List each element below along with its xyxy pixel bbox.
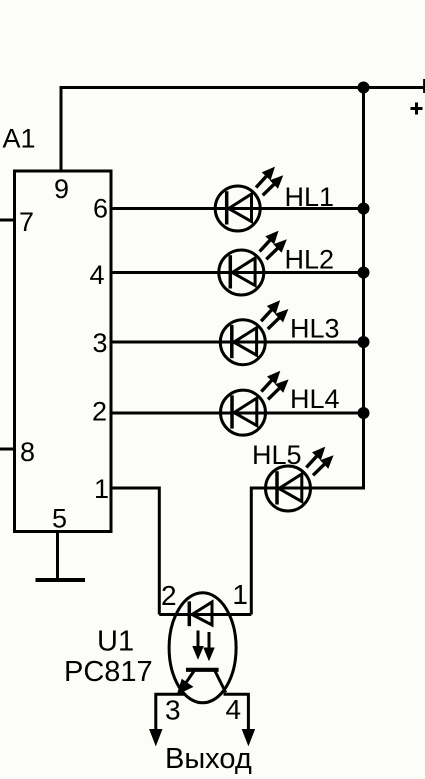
svg-text:2: 2 — [92, 397, 107, 427]
svg-text:A1: A1 — [3, 124, 36, 154]
svg-text:8: 8 — [20, 437, 35, 467]
svg-text:HL3: HL3 — [290, 314, 340, 344]
svg-text:3: 3 — [165, 695, 181, 726]
svg-text:Выход: Выход — [165, 743, 252, 775]
svg-text:HL1: HL1 — [285, 182, 335, 212]
svg-text:3: 3 — [92, 328, 107, 358]
svg-text:5: 5 — [52, 504, 67, 534]
svg-text:6: 6 — [93, 194, 108, 224]
svg-text:7: 7 — [19, 207, 34, 237]
svg-text:4: 4 — [89, 260, 104, 290]
svg-text:HL2: HL2 — [285, 245, 335, 275]
svg-text:HL5: HL5 — [252, 440, 302, 470]
svg-text:PC817: PC817 — [64, 656, 153, 688]
svg-text:U1: U1 — [97, 626, 134, 658]
svg-text:1: 1 — [94, 474, 109, 504]
svg-text:9: 9 — [54, 174, 69, 204]
svg-text:2: 2 — [161, 580, 177, 611]
svg-text:1: 1 — [232, 579, 248, 610]
svg-text:HL4: HL4 — [290, 384, 340, 414]
svg-text:4: 4 — [226, 694, 242, 725]
